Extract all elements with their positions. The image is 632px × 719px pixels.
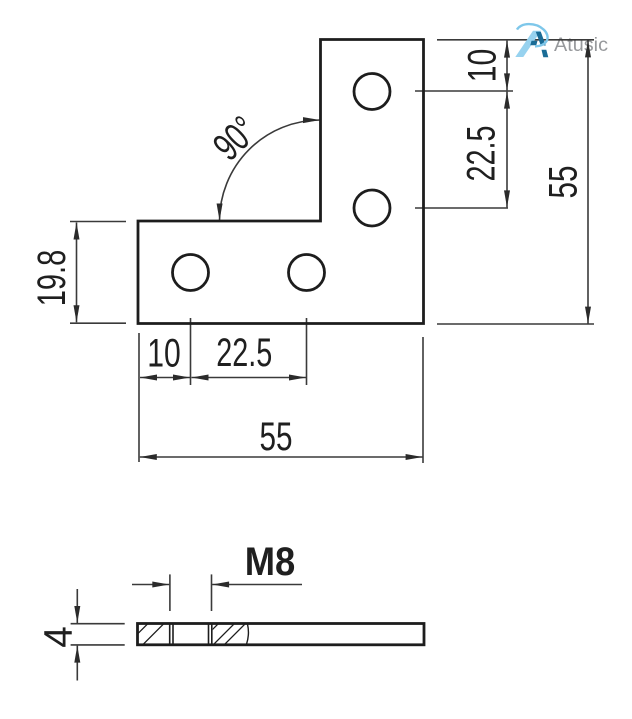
dimension line 19.8	[76, 223, 78, 323]
extension line hole row 1	[415, 90, 513, 92]
dimension leader M8 right arrow	[212, 584, 302, 586]
dimension line 22.5 (right)	[506, 92, 508, 208]
dimension arrow 4 bottom	[76, 646, 78, 681]
svg-text:10: 10	[460, 49, 504, 83]
svg-text:19.8: 19.8	[30, 250, 74, 307]
logo A right stroke lower (dark blue)	[542, 50, 549, 58]
extension line bottom-right (x=423)	[422, 337, 424, 463]
bracket outline (L-shape)	[138, 40, 424, 324]
dimension arrow 4 top	[76, 589, 78, 623]
svg-text:M8: M8	[245, 540, 296, 584]
svg-text:22.5: 22.5	[460, 126, 504, 182]
tapped hole wall right (thread lines)	[208, 624, 210, 645]
hole top (vertical leg)	[354, 74, 390, 110]
svg-text:4: 4	[37, 626, 81, 648]
logo A crossbar (dark blue)	[530, 41, 537, 46]
logo swoosh	[517, 24, 548, 46]
dimension line 10 (right)	[506, 41, 508, 91]
dimension line 55 (right)	[587, 40, 589, 323]
svg-text:10: 10	[147, 332, 181, 376]
extension line bottom edge (55 right dim)	[437, 323, 594, 325]
extension line top edge (55 right dim)	[437, 39, 594, 41]
extension line bottom-left (x=139)	[138, 333, 140, 462]
extension line hole col 2 (x=306.5)	[306, 318, 308, 385]
logo A right stroke upper (dark blue)	[536, 32, 546, 46]
dimension line 22.5 (bottom)	[192, 377, 307, 379]
extension line 19.8 top	[70, 221, 126, 223]
hole left (horizontal leg)	[173, 255, 209, 291]
svg-text:55: 55	[541, 166, 585, 199]
extension line hole col 1 (x=190.5)	[190, 318, 192, 385]
logo A left stroke (light blue)	[515, 31, 541, 57]
extension line M8 right	[211, 574, 213, 611]
dimension leader M8 left arrow	[132, 584, 169, 586]
angle arc 90 degrees	[220, 120, 321, 221]
tapped hole wall left (thread lines)	[169, 624, 171, 645]
extension line 19.8 bottom	[70, 322, 126, 324]
extension line thickness top	[71, 623, 125, 625]
dimension line 10 (bottom)	[140, 377, 190, 379]
hatching left section	[123, 619, 169, 649]
svg-text:55: 55	[260, 415, 293, 459]
extension line hole row 2	[415, 207, 508, 209]
partial section break line	[247, 624, 249, 644]
hatching right section	[193, 619, 250, 649]
dimension line 55 (bottom)	[140, 456, 423, 458]
side view plate outline	[138, 624, 425, 645]
hole lower (vertical leg)	[354, 190, 390, 226]
extension line thickness bottom	[71, 644, 125, 646]
svg-text:22.5: 22.5	[216, 331, 272, 375]
extension line M8 left	[169, 574, 171, 611]
hole right (horizontal leg)	[289, 255, 325, 291]
svg-text:Atusic: Atusic	[554, 35, 608, 56]
